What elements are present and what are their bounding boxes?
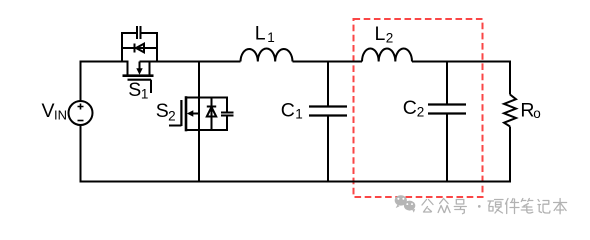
svg-text:2: 2 (386, 30, 394, 45)
svg-text:2: 2 (417, 104, 425, 119)
capacitor C1 vertical wires (327, 62, 329, 182)
svg-text:o: o (533, 106, 541, 121)
switch S2 MOSFET bottom stub (186, 129, 199, 131)
voltage source plus sign (78, 104, 84, 110)
svg-text:L: L (255, 22, 266, 44)
switch S1 body diode wire (122, 47, 157, 49)
switch S1 MOSFET drain stub (127, 62, 129, 75)
capacitor C2 vertical wires (446, 62, 448, 182)
svg-text:IN: IN (54, 108, 67, 123)
switch S1 MOSFET gate bar (128, 79, 152, 81)
svg-text:2: 2 (168, 109, 176, 124)
wire bottom rail (80, 181, 512, 183)
inductor L2 (362, 48, 412, 61)
switch S2 body diode vertical wire (211, 98, 213, 131)
switch S1 MOSFET channel bar (123, 74, 154, 77)
char ji (538, 200, 550, 214)
wire top rail from L2 to right corner (412, 61, 511, 63)
switch S2 MOSFET channel bar (185, 96, 188, 131)
char gong (422, 200, 433, 213)
switch S1 parasitic capacitor plates (137, 26, 141, 39)
char zhong (438, 199, 450, 213)
resistor Ro zigzag (504, 95, 516, 127)
switch S2 MOSFET body arrow (192, 113, 199, 115)
watermark text gongzhonghao yingjian bijiben (422, 199, 567, 214)
svg-text:1: 1 (267, 30, 275, 45)
watermark wechat logo (395, 195, 416, 212)
wire top rail from S1 to L1 (140, 61, 241, 63)
red dashed box (2nd stage filter boundary) (354, 19, 483, 197)
switch S2 body diode cathode bar (207, 106, 216, 108)
svg-text:S: S (128, 79, 141, 101)
inductor L1 (241, 48, 293, 61)
switch S1 MOSFET body arrow (139, 62, 141, 70)
switch S2 body diode triangle (207, 107, 216, 117)
switch S2 drain vertical wire (198, 62, 200, 182)
switch S1 body diode cathode bar (134, 44, 136, 53)
switch S2 MOSFET gate bar (180, 100, 182, 126)
svg-text:1: 1 (295, 106, 303, 121)
wire top rail left segment (81, 62, 129, 102)
switch S2 MOSFET gate lead (169, 125, 181, 127)
wire left vertical below source VIN (80, 125, 82, 182)
svg-text:V: V (42, 100, 55, 122)
svg-text:S: S (156, 100, 169, 122)
separator dot (478, 205, 481, 208)
svg-text:C: C (281, 99, 295, 121)
capacitor C1 plates (309, 107, 347, 116)
char jian (506, 199, 520, 214)
char ying (488, 200, 503, 214)
char bi (521, 199, 533, 214)
switch S2 parasitic capacitor plates (221, 113, 234, 116)
char hao (454, 200, 466, 214)
char ben (554, 199, 567, 214)
wire top rail from L1 to L2 (293, 61, 363, 63)
voltage source minus sign (78, 120, 84, 122)
switch S2 MOSFET top stub (186, 97, 199, 99)
switch S1 body diode triangle (136, 44, 144, 53)
switch S1 MOSFET source stub (149, 62, 151, 75)
resistor Ro top stub (509, 62, 511, 95)
svg-text:1: 1 (141, 87, 149, 102)
switch S2 body diode branch loop (199, 98, 227, 131)
voltage source VIN circle (69, 101, 93, 125)
svg-text:L: L (375, 23, 386, 45)
resistor Ro bottom stub (509, 127, 511, 182)
switch S1 parasitic capacitor loop top wire (122, 33, 157, 62)
svg-text:C: C (403, 97, 417, 119)
capacitor C2 plates (428, 105, 466, 114)
switch S1 MOSFET gate lead (150, 80, 152, 93)
